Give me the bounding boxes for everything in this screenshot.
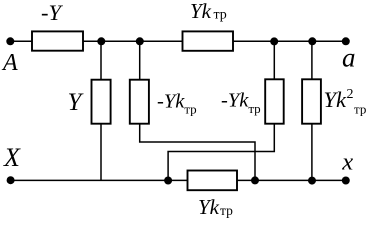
node dot bottom right of box — [251, 176, 259, 184]
wire shunt branch 2 with jog to right bottom node — [140, 41, 255, 180]
node dot top 3 — [270, 37, 278, 45]
resistor box Yk2_tr (shunt 4) — [302, 79, 321, 123]
wire shunt branch 3 with jog to left bottom node — [168, 41, 274, 180]
svg-text:A: A — [1, 50, 18, 76]
svg-text:x: x — [341, 148, 353, 175]
node dot top 1 — [97, 37, 105, 45]
node dot top 2 — [136, 37, 144, 45]
svg-text:X: X — [3, 143, 21, 172]
terminal a dot — [342, 37, 350, 45]
wire bottom rail X-x — [11, 179, 346, 181]
resistor box Y (shunt 1) — [92, 80, 111, 124]
svg-text:-Y: -Y — [41, 0, 63, 25]
resistor box -Yk_tr (shunt 2) — [130, 80, 149, 124]
resistor box -Yk_tr (shunt 3) — [265, 79, 284, 123]
svg-text:a: a — [342, 43, 356, 73]
terminal X dot — [7, 176, 15, 184]
resistor box Yk_tr (series, bottom) — [188, 171, 238, 191]
resistor box Yk_tr (series, top right) — [183, 31, 234, 50]
terminal A dot — [6, 37, 14, 45]
wire shunt branch 4 (Yk2tr) — [311, 41, 313, 180]
wire shunt branch 1 (Y) — [100, 41, 102, 180]
node dot bottom branch 4 — [308, 177, 316, 185]
node dot top 4 — [308, 37, 316, 45]
terminal x dot — [342, 177, 350, 185]
wire top rail A-a — [10, 40, 346, 42]
node dot bottom left of box — [164, 177, 172, 185]
resistor box -Y (series, top left) — [32, 31, 83, 50]
